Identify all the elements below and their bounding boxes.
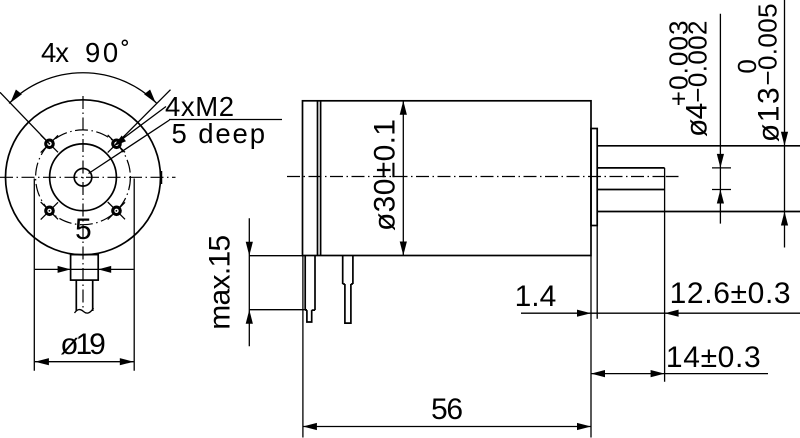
hole cross SW [41,202,59,220]
max15 ext top [249,255,302,257]
tab edge right [133,179,135,371]
front view body circle ø30 [6,100,161,255]
angle dimension arc 90deg [9,73,157,104]
14 left arrow [591,370,605,377]
pin 1 wide [305,256,315,311]
svg-text:56: 56 [431,393,463,426]
screw hole M2 #4 [111,206,122,217]
dim line 14 [591,373,768,375]
svg-text:ø4: ø4 [681,103,714,137]
front vertical centerline [82,96,84,312]
svg-text:ø19: ø19 [60,328,106,361]
ø4 shaft bottom [597,189,664,191]
front boss rectangle [71,255,99,281]
right radial line [117,90,171,144]
56 right arrow [577,423,591,430]
dim line ø19 [35,361,134,363]
ø13 dim line [784,0,786,248]
hole cross NE [108,135,126,153]
side body rectangle [303,101,592,256]
front shaft sides [75,280,77,311]
dim 5 left arrow [58,266,71,273]
56 left arrow [303,423,317,430]
front view shaft circle [74,169,92,187]
max15 top arrow [246,242,253,256]
svg-text:−0.002: −0.002 [683,21,713,103]
pin 2 tip [345,284,351,323]
pin 2 wide [343,256,353,285]
14 right arrow [651,370,665,377]
svg-text:14±0.3: 14±0.3 [666,341,761,374]
angle arc right arrow [144,90,156,103]
front centerline end tick [161,171,163,184]
dim ø19 left arrow [35,358,49,365]
ø4 bottom arrow [717,190,724,204]
svg-text:90˚: 90˚ [85,37,130,68]
dim ø30 top arrow [400,101,407,115]
bolt pitch circle (dash-dot) [36,130,131,225]
ø4 shaft end + ext [664,168,666,382]
screw hole M2 #2 [111,139,122,150]
front horizontal centerline [0,176,176,178]
left radial line [0,92,50,144]
hole cross SE [108,202,126,220]
dim line 5 [35,268,134,270]
svg-text:ø30±0.1: ø30±0.1 [368,119,401,231]
ext line right 56/14/1.4 [590,256,592,438]
pin 1 tip [307,310,312,322]
leader to hole (4xM2) [117,107,166,144]
dim ø19 right arrow [120,358,134,365]
ø4 ext stub bottom [712,189,731,191]
shaft break squiggle [75,308,94,313]
dim line 56 [303,426,591,428]
ø4 dim line [719,14,721,224]
screw hole M2 #3 [44,206,55,217]
label underline [169,119,282,121]
ø4 ext stub top [712,167,731,169]
svg-text:1.4: 1.4 [515,280,557,313]
hole cross NW [41,135,59,153]
max15 dim line [248,218,250,346]
ø13 bottom line [597,211,800,213]
ext line left 56 [302,256,304,438]
flange line 2 [320,101,322,256]
svg-text:5: 5 [75,213,92,246]
ext line washer right [596,226,598,319]
screw hole M2 #1 [44,139,55,150]
dim ø30 bottom arrow [400,242,407,256]
tab edge left [33,179,35,371]
svg-text:ø13: ø13 [752,87,785,142]
ø13 top line [597,145,800,147]
12.6 arrow [665,310,679,317]
max15 bottom arrow [246,310,253,324]
svg-text:12.6±0.3: 12.6±0.3 [670,277,791,310]
front view boss circle ø13 [50,144,117,211]
max15 ext bottom [249,309,307,311]
ø4 shaft top [597,167,664,169]
svg-text:4x: 4x [41,37,69,68]
ø13 top arrow [781,132,788,146]
svg-text:−0.005: −0.005 [753,3,783,85]
dim 5 right arrow [98,266,111,273]
dim line ø30 [402,101,404,256]
svg-text:max.15: max.15 [204,235,237,330]
1.4 arrow [577,310,591,317]
dim line 1.4/12.6 [521,312,800,314]
flange line 1 [317,101,319,256]
washer plate [591,129,597,226]
ø4 top arrow [717,154,724,168]
angle arc left arrow [10,90,22,103]
side horizontal centerline [287,176,666,178]
ø13 bottom arrow [781,212,788,226]
leader to center (5 deep) [89,120,170,174]
svg-text:5 deep: 5 deep [172,118,266,149]
